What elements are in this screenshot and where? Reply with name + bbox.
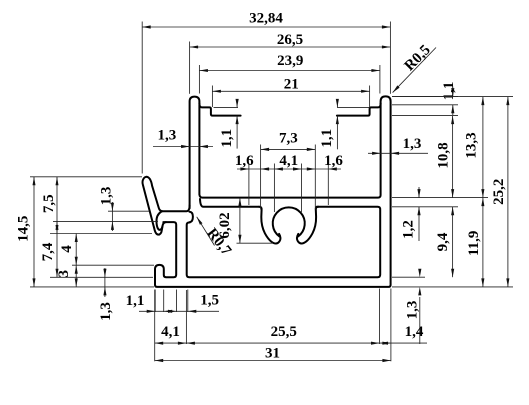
svg-text:7,5: 7,5: [41, 194, 57, 213]
dimension 1,3 upper-left wall thickness: [153, 146, 213, 148]
svg-text:1,3: 1,3: [403, 136, 422, 152]
svg-text:7,4: 7,4: [40, 242, 56, 261]
dimension 26,5: [190, 46, 391, 48]
svg-text:3: 3: [56, 270, 72, 278]
svg-text:26,5: 26,5: [277, 32, 303, 48]
dimension 10,8: [452, 116, 454, 198]
svg-text:4: 4: [59, 245, 75, 253]
dimension 13,3: [482, 97, 484, 198]
dimension 11,9: [482, 198, 484, 287]
svg-text:23,9: 23,9: [277, 53, 303, 69]
leader R0,7 at lower cavity ceiling left corner: [197, 217, 215, 246]
svg-text:1,1: 1,1: [441, 82, 457, 101]
dimension 6,02 screw-port depth: [237, 242, 274, 244]
dimension 14,5: [33, 177, 35, 287]
svg-text:1,3: 1,3: [405, 301, 421, 320]
dimension 4: [75, 234, 77, 266]
profile: fin hook inner channel: [156, 212, 162, 230]
profile: upper-left wall inner face down to floor: [199, 104, 380, 198]
dimension 1,1 left seat step: [214, 106, 239, 108]
svg-text:4,1: 4,1: [279, 153, 298, 169]
svg-text:1,2: 1,2: [401, 220, 417, 239]
svg-text:1,3: 1,3: [99, 187, 115, 206]
dimensions 4,1 / 25,5 / 1,4 chain: [155, 342, 427, 344]
dimension 1,1 top-right cap: [392, 96, 458, 98]
profile: screw-port left finger: [259, 207, 280, 244]
profile: left wall outer face flare into notch floor: [162, 205, 189, 211]
svg-text:31: 31: [265, 345, 280, 361]
svg-text:13,3: 13,3: [463, 132, 479, 158]
profile: fin (slanted) with rounded top cap: [143, 177, 163, 228]
profile: upper-right wall with rounded cap (R0,5): [155, 96, 391, 287]
dimension 1,1 right seat step: [337, 106, 370, 108]
svg-text:32,84: 32,84: [249, 10, 283, 26]
dimension 23,9: [199, 70, 380, 72]
dimension 1,3 fin/pocket (upper-left): [111, 202, 113, 231]
right stack extension lines: [392, 115, 458, 117]
svg-text:25,5: 25,5: [271, 324, 297, 340]
svg-text:11,9: 11,9: [466, 231, 482, 256]
dimensions 1,6 / 4,1 / 1,6 screw-port row: [273, 164, 275, 213]
profile: right seat ceiling and step down to center ceiling: [337, 104, 381, 116]
dimension 1,2 separator: [418, 187, 420, 198]
profile: left seat ceiling and step down to center ceiling: [199, 104, 240, 116]
dimension 32,84: [142, 26, 390, 28]
svg-text:9,4: 9,4: [435, 232, 451, 251]
profile: gasket pocket right end cap: [190, 212, 193, 223]
dimension 1,3 bottom wall (lower-left): [104, 268, 106, 297]
profile: upper-left wall with rounded cap: [190, 97, 200, 209]
svg-text:1,6: 1,6: [235, 153, 254, 169]
svg-text:21: 21: [284, 76, 299, 92]
profile: fin bottom hook: [154, 222, 166, 235]
dimension 21: [212, 90, 369, 92]
dimension 7,5: [56, 177, 58, 234]
svg-text:1,6: 1,6: [324, 153, 343, 169]
dimension 7,4: [56, 221, 58, 277]
svg-text:1,3: 1,3: [98, 302, 114, 321]
profile: screw-port circular opening: [273, 207, 305, 236]
profile: separator web / R0,7 corner at left of lower cavity ceiling: [200, 199, 259, 207]
svg-text:25,2: 25,2: [491, 179, 507, 205]
svg-text:10,8: 10,8: [435, 142, 451, 168]
dimensions 1,1 / 1,5 bottom-left: [139, 310, 219, 312]
extension lines: top dims: [141, 22, 143, 174]
dimension 25,2: [507, 97, 509, 287]
profile: pocket shelf and slot right wall down to floor: [187, 207, 381, 277]
svg-text:1,4: 1,4: [405, 324, 424, 340]
svg-text:1,3: 1,3: [158, 127, 177, 143]
svg-text:1,5: 1,5: [200, 292, 219, 308]
svg-text:7,3: 7,3: [279, 130, 298, 146]
profile: screw-port right finger: [297, 207, 318, 244]
leader R0,5 at top-right cap corner: [393, 48, 436, 93]
svg-text:1,1: 1,1: [319, 129, 335, 148]
left stack extension lines: [30, 176, 142, 178]
svg-text:1,1: 1,1: [219, 129, 235, 148]
svg-text:14,5: 14,5: [15, 216, 31, 242]
dimension 3: [75, 265, 77, 287]
dimension 7,3 screw-port outer width: [260, 145, 262, 210]
bottom extension lines: [154, 290, 156, 313]
dimension 1,3 upper-right wall thickness: [368, 152, 428, 154]
dimension 1,3 bottom-right wall vertical (floor thickness): [418, 269, 421, 278]
dimension 9,4: [452, 207, 454, 277]
svg-text:1,1: 1,1: [126, 293, 145, 309]
svg-text:4,1: 4,1: [161, 324, 180, 340]
dimension 31: [155, 360, 391, 362]
